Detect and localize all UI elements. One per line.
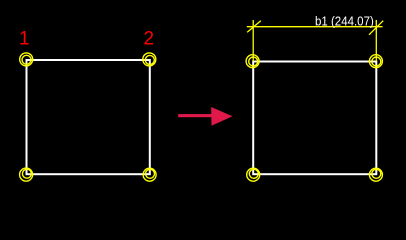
left square corner marker TR bbox=[143, 53, 156, 66]
dimension extension line right bbox=[375, 20, 377, 62]
right square corner marker BR bbox=[369, 168, 382, 181]
dimension tick right bbox=[369, 21, 383, 35]
right square corner marker TL bbox=[246, 55, 259, 68]
dimension tick left bbox=[247, 21, 261, 33]
dimension line bbox=[247, 26, 383, 28]
left square corner marker TL bbox=[20, 53, 33, 66]
svg-text:2: 2 bbox=[144, 28, 155, 49]
left square outline bbox=[27, 60, 150, 174]
right square corner marker TR bbox=[369, 55, 382, 68]
left square corner marker BL bbox=[20, 168, 33, 181]
right square outline bbox=[253, 62, 376, 175]
svg-text:b1 (244.07): b1 (244.07) bbox=[315, 13, 374, 28]
svg-text:1: 1 bbox=[19, 28, 30, 49]
dimension extension line left bbox=[252, 20, 254, 62]
right square corner marker BL bbox=[247, 168, 260, 181]
red arrow bbox=[178, 107, 232, 126]
left square corner marker BR bbox=[143, 168, 156, 181]
